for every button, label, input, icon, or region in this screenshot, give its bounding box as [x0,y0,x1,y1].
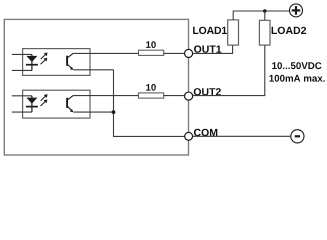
label supply current [269,75,324,82]
wire Q1 emitter to rail [73,69,113,71]
wire OUT1 to LOAD1 [193,45,233,53]
LED D1 [26,54,38,70]
wire input stub 1 [12,53,32,55]
terminal COM [185,132,193,140]
resistor LOAD2 [259,20,270,45]
wire Q2 collector to R2 [73,95,138,97]
wire COM to minus [193,135,291,137]
phototransistor Q1 [67,53,73,70]
terminal OUT1 [185,49,193,57]
wire input stub 2 [12,69,32,71]
wire LOAD1 top to plus [233,11,289,20]
label LOAD2 [272,27,307,34]
label R1 value 10 [146,41,156,48]
module boundary box [4,19,188,155]
wire emitter rail vertical [114,70,185,137]
resistor R2 [139,93,164,98]
LED D2 [26,96,38,112]
wire Q1 collector to R1 [73,52,138,54]
label COM [194,129,217,136]
wire input stub 3 [12,95,32,97]
wire R2 to OUT2 [164,95,185,97]
resistor R1 [139,50,164,55]
junction dot rail [112,110,116,114]
label LOAD1 [193,27,227,34]
LED D2 light arrows [41,95,47,106]
label R2 value 10 [146,84,156,91]
wire LOAD2 top lead [264,11,266,20]
optocoupler U2 box [23,90,90,118]
wire LOAD2 bottom to OUT2 [193,45,265,96]
terminal plus [290,4,303,17]
label supply voltage [272,62,321,69]
optocoupler U1 box [23,49,90,76]
LED D1 light arrows [41,53,47,64]
label OUT1 [194,45,221,52]
label OUT2 [194,88,221,95]
resistor LOAD1 [228,20,239,45]
terminal OUT2 [185,92,193,100]
phototransistor Q2 [67,96,73,113]
junction dot top wire [263,9,267,13]
wire Q2 emitter to rail [73,111,113,113]
wire input stub 4 [12,111,32,113]
terminal minus [291,130,304,143]
wire R1 to OUT1 [164,52,185,54]
